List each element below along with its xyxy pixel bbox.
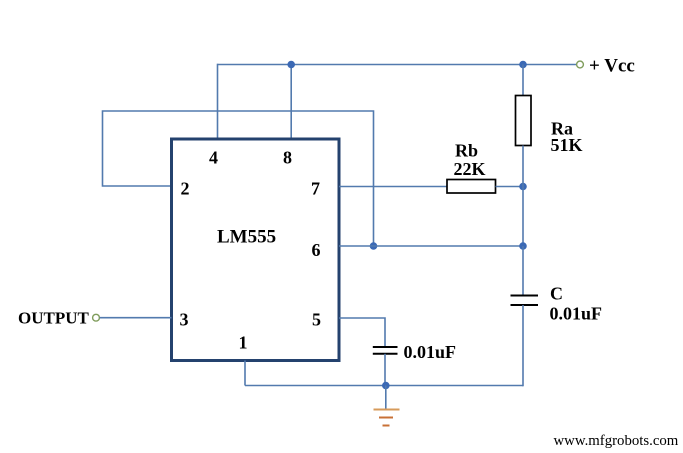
resistor Ra 51K xyxy=(516,96,532,146)
resistor Rb 22K xyxy=(447,180,496,194)
node junction dot Rb/Ra xyxy=(519,183,527,191)
wire Rb to node xyxy=(496,186,524,188)
capacitor C2 top plate xyxy=(373,346,398,348)
wire to ground xyxy=(385,386,387,410)
capacitor C2 bottom plate xyxy=(373,353,398,355)
svg-text:3: 3 xyxy=(180,310,189,330)
wire Rb node down to pin6 node xyxy=(522,187,524,247)
svg-text:51K: 51K xyxy=(551,135,583,155)
terminal +Vcc circle xyxy=(577,61,584,68)
svg-text:+ Vcc: + Vcc xyxy=(589,56,635,77)
svg-text:0.01uF: 0.01uF xyxy=(404,342,457,362)
capacitor C bottom plate xyxy=(511,304,539,306)
svg-text:0.01uF: 0.01uF xyxy=(550,304,603,324)
svg-text:5: 5 xyxy=(312,310,321,330)
svg-text:22K: 22K xyxy=(454,159,486,179)
wire C to bottom rail xyxy=(522,305,524,386)
wire pin 7 to Rb xyxy=(339,186,447,188)
svg-text:7: 7 xyxy=(311,179,320,199)
node junction dot pin6/C xyxy=(519,242,527,250)
wire pin6 node down to C xyxy=(522,246,524,295)
wire bottom rail xyxy=(245,385,523,387)
svg-text:OUTPUT: OUTPUT xyxy=(18,308,90,327)
wire pin 6 xyxy=(339,245,523,247)
wire top Vcc rail xyxy=(218,64,577,66)
node junction dot Ra/top rail xyxy=(519,61,527,69)
svg-text:LM555: LM555 xyxy=(217,227,276,248)
svg-text:1: 1 xyxy=(239,333,248,353)
svg-text:Rb: Rb xyxy=(455,141,478,161)
wire pin 8 vertical xyxy=(290,65,292,140)
node junction dot loop/pin6 xyxy=(370,242,378,250)
svg-text:4: 4 xyxy=(209,147,218,167)
wire pin 5 xyxy=(339,318,385,347)
svg-text:2: 2 xyxy=(181,179,190,199)
op-amp U1 LM555 IC box xyxy=(172,139,340,361)
svg-text:8: 8 xyxy=(283,147,292,167)
svg-text:6: 6 xyxy=(312,240,321,260)
wire C2 to bottom rail xyxy=(384,354,386,386)
ground symbol bar 2 xyxy=(379,417,393,419)
wire output to pin 3 xyxy=(100,317,172,319)
ground symbol bar 1 xyxy=(374,409,400,411)
wire pin 4 vertical xyxy=(217,64,219,139)
svg-text:C: C xyxy=(550,284,563,304)
wire pin 1 vertical xyxy=(244,361,246,386)
node junction dot pin8/top rail xyxy=(287,61,295,69)
svg-text:www.mfgrobots.com: www.mfgrobots.com xyxy=(554,433,679,449)
node junction dot ground xyxy=(382,382,390,390)
wire Ra to Rb node xyxy=(522,146,524,187)
capacitor C top plate xyxy=(511,295,539,297)
wire pin 2 loop: left, up, across top, down to pin 6 xyxy=(103,111,374,246)
wire Vcc rail to Ra xyxy=(522,65,524,96)
ground symbol bar 3 xyxy=(383,425,390,427)
terminal output circle xyxy=(93,314,100,321)
